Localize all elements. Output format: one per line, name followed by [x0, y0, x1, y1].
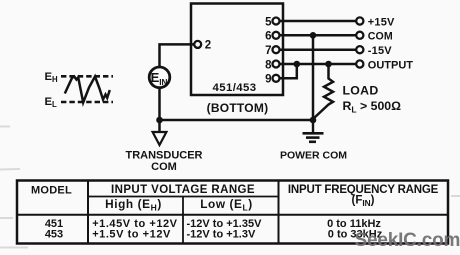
svg-text:TRANSDUCER: TRANSDUCER	[126, 150, 203, 162]
op-amp module U1 (451/453 bottom view)	[191, 4, 283, 96]
junction dot power com	[310, 117, 317, 124]
svg-text:LOAD: LOAD	[343, 83, 379, 97]
pin 7	[273, 46, 280, 53]
svg-text:6: 6	[265, 31, 271, 43]
svg-text:9: 9	[265, 74, 271, 86]
svg-text:-12V to +1.3V: -12V to +1.3V	[187, 228, 256, 240]
transducer com stem	[158, 120, 161, 132]
svg-text:453: 453	[45, 228, 63, 240]
pin 5	[273, 18, 280, 25]
svg-text:COM: COM	[368, 31, 393, 43]
wire EIN to ground rail	[158, 88, 161, 121]
wire pin 8 to OUTPUT terminal	[279, 63, 357, 66]
EH dashed level line	[61, 75, 113, 78]
pin 8	[273, 61, 280, 68]
pin 2	[194, 41, 201, 48]
pin 6	[273, 32, 280, 39]
svg-text:-15V: -15V	[368, 45, 392, 57]
junction dot COM rail top	[310, 32, 317, 39]
power com ground symbol	[303, 120, 324, 142]
wire pin 9 up to pin 8 net	[279, 65, 297, 78]
svg-text:POWER COM: POWER COM	[280, 150, 347, 162]
junction dot pin9/pin8 net	[294, 61, 301, 68]
svg-text:7: 7	[265, 45, 271, 57]
svg-text:MODEL: MODEL	[31, 185, 72, 197]
pin 9	[273, 75, 280, 82]
source EIN	[149, 67, 170, 88]
svg-text:INPUT FREQUENCY RANGE: INPUT FREQUENCY RANGE	[288, 184, 439, 196]
svg-text:COM: COM	[151, 161, 177, 173]
svg-text:OUTPUT: OUTPUT	[368, 59, 414, 71]
svg-text:2: 2	[205, 40, 211, 52]
terminal COM	[356, 32, 363, 39]
EL dashed level line	[61, 101, 113, 104]
wire pin 7 to -15V terminal	[279, 48, 357, 51]
load resistor RL	[314, 64, 334, 119]
specifications table	[17, 181, 448, 244]
wire pin 5 to +15V terminal	[279, 20, 357, 23]
transducer com arrow (open triangle)	[153, 132, 167, 145]
terminal +15V	[356, 17, 363, 24]
svg-text:SeekIC.com: SeekIC.com	[355, 230, 460, 251]
wire EIN to pin 2	[160, 44, 195, 68]
svg-text:RL > 500Ω: RL > 500Ω	[343, 99, 402, 115]
terminal OUTPUT	[356, 60, 363, 67]
junction dot load resistor top	[325, 61, 332, 68]
ground rail wire	[158, 119, 314, 122]
svg-text:8: 8	[265, 59, 272, 71]
terminal -15V	[356, 46, 363, 53]
wire pin 6 to COM terminal	[279, 34, 357, 37]
svg-text:+1.5V to +12V: +1.5V to +12V	[92, 228, 171, 240]
junction dot EIN/rail	[156, 117, 163, 124]
svg-text:INPUT VOLTAGE RANGE: INPUT VOLTAGE RANGE	[111, 184, 255, 196]
COM rail vertical wire	[312, 35, 315, 120]
svg-text:5: 5	[265, 16, 272, 28]
input waveform	[65, 77, 110, 103]
svg-text:451/453: 451/453	[213, 82, 257, 94]
svg-text:+15V: +15V	[368, 16, 395, 28]
svg-text:(BOTTOM): (BOTTOM)	[207, 101, 269, 115]
